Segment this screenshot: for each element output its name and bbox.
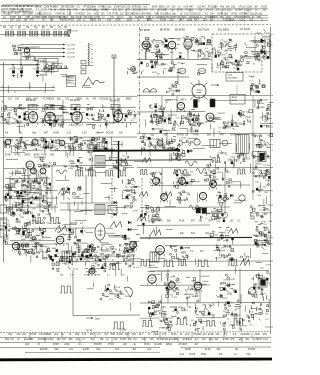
right border wire lower	[270, 96, 272, 334]
svg-text:EY86: EY86	[223, 338, 230, 341]
tube B25	[153, 178, 160, 187]
tube B24 partial	[130, 242, 137, 251]
svg-text:EY86: EY86	[8, 195, 14, 197]
wire mesh left col	[8, 64, 93, 93]
svg-text:C12: C12	[65, 99, 70, 101]
table column ticks	[30, 333, 252, 343]
svg-text:PCF80: PCF80	[233, 153, 240, 155]
wave y321 sq1	[142, 321, 153, 327]
svg-text:R47: R47	[220, 135, 225, 137]
parts list rule 2	[50, 8, 268, 10]
svg-text:150k: 150k	[187, 19, 193, 22]
table text row 4	[40, 348, 256, 351]
line output transformer	[236, 135, 251, 162]
IF labels row y100	[8, 98, 132, 101]
svg-text:PL36: PL36	[73, 268, 79, 270]
svg-text:AT1025: AT1025	[170, 122, 178, 125]
aerial input parts	[67, 29, 78, 37]
AGC bus upper	[0, 86, 55, 88]
right column parts b	[252, 141, 271, 179]
detector dashed box	[212, 34, 262, 72]
deflection coil top b	[198, 68, 206, 73]
section divider dash-dot	[139, 27, 141, 133]
svg-text:EB91: EB91	[126, 99, 132, 101]
svg-text:AT1025: AT1025	[255, 58, 263, 61]
response list bracket	[67, 76, 76, 87]
wave row2 parts	[149, 172, 164, 185]
hwire y168 right	[137, 166, 273, 168]
svg-text:390: 390	[54, 348, 59, 351]
svg-text:2k2: 2k2	[22, 333, 27, 336]
parts row centre a	[3, 138, 54, 153]
IF takeoff arrow 2	[22, 48, 76, 51]
ps parts b	[195, 300, 216, 320]
audio extra parts	[150, 307, 188, 321]
scan coils symbol	[143, 89, 157, 93]
panel socket b	[0, 218, 7, 226]
svg-text:EY86: EY86	[159, 328, 165, 330]
tuner oscillator detail	[40, 60, 55, 73]
line hold parts	[176, 191, 191, 204]
svg-text:PY81: PY81	[150, 61, 156, 63]
bus hatch box	[97, 143, 107, 150]
frame fb parts	[71, 242, 94, 261]
tube below B12	[177, 102, 184, 111]
svg-text:EF80: EF80	[257, 164, 263, 166]
svg-text:EF80: EF80	[50, 147, 56, 149]
svg-text:PY81: PY81	[193, 135, 199, 137]
svg-text:1M: 1M	[235, 348, 238, 351]
svg-text:2n2: 2n2	[180, 353, 185, 356]
svg-text:100: 100	[140, 16, 145, 19]
svg-text:470: 470	[113, 338, 118, 341]
ratio detector parts	[150, 56, 166, 69]
wave y264 sq6	[240, 260, 250, 266]
interlace parts	[86, 137, 109, 154]
IF transformer S10	[59, 29, 62, 36]
frame wave sq b	[50, 218, 60, 224]
decoupling parts	[25, 55, 40, 63]
right column parts mid	[256, 99, 273, 129]
vline x225 low	[224, 168, 226, 215]
bottom-left labels	[25, 222, 84, 225]
label B9	[175, 29, 210, 32]
centre extra parts	[64, 157, 94, 172]
svg-text:+C3 240: +C3 240	[67, 53, 76, 55]
svg-text:EF80: EF80	[185, 348, 191, 351]
svg-text:100: 100	[77, 19, 82, 22]
svg-text:ECL80: ECL80	[240, 326, 247, 328]
svg-text:125: 125	[118, 9, 123, 12]
svg-text:0.05: 0.05	[107, 99, 112, 101]
svg-text:R47: R47	[263, 333, 268, 336]
parts list header rule	[2, 4, 150, 6]
IF takeoff arrow 4	[22, 56, 76, 59]
svg-text:100: 100	[188, 338, 193, 341]
table text row 2	[5, 338, 268, 341]
hwire y166 mid	[40, 165, 132, 168]
ps labels	[170, 307, 192, 309]
waveform sine small	[56, 170, 67, 174]
parts list rule 3	[1, 14, 268, 16]
svg-text:390: 390	[216, 348, 221, 351]
IF transformer S8	[47, 29, 50, 36]
electrolytic C14	[17, 67, 24, 78]
svg-text:220k: 220k	[229, 19, 235, 22]
svg-text:180 V: 180 V	[180, 99, 187, 102]
section rule y160	[105, 159, 212, 162]
osc transformer	[210, 140, 220, 148]
svg-text:125: 125	[162, 333, 167, 336]
svg-text:DY86: DY86	[99, 111, 105, 113]
svg-text:EF80: EF80	[223, 241, 229, 243]
output arrow c	[256, 244, 266, 246]
svg-text:PL36: PL36	[29, 142, 35, 144]
svg-text:C12: C12	[67, 133, 72, 135]
svg-text:EY86: EY86	[84, 275, 90, 277]
svg-text:PY81: PY81	[186, 175, 192, 177]
vline x92 mid	[91, 155, 93, 203]
diode rail a	[251, 40, 261, 42]
boost diode b	[128, 228, 131, 232]
svg-text:EY86: EY86	[133, 211, 139, 213]
svg-text:2n2: 2n2	[194, 338, 199, 341]
labels row y135r	[142, 135, 256, 137]
svg-text:220: 220	[202, 338, 207, 341]
svg-text:ECL80: ECL80	[106, 133, 114, 135]
svg-text:PCF80: PCF80	[269, 34, 273, 36]
dark box right	[259, 278, 267, 287]
svg-text:5p6: 5p6	[62, 338, 67, 341]
svg-text:2n2: 2n2	[147, 348, 152, 351]
table rule 3	[0, 341, 271, 343]
svg-text:18p: 18p	[238, 338, 243, 341]
IF strip bus wire	[0, 34, 68, 36]
svg-text:EY86: EY86	[23, 191, 29, 193]
sq y158 right	[212, 158, 221, 163]
wave M	[137, 216, 146, 221]
svg-text:4k7: 4k7	[194, 343, 199, 346]
table rule 1	[0, 331, 271, 334]
waveform sq 1	[75, 171, 84, 177]
wave y264 sq3	[178, 260, 187, 266]
svg-text:1M: 1M	[236, 322, 239, 324]
IF transformer S3	[18, 29, 21, 36]
centre saw wave	[58, 189, 70, 195]
sync parts a	[15, 139, 28, 152]
svg-text:EY86: EY86	[160, 19, 167, 22]
feeder top connector	[112, 55, 116, 58]
diode rail b	[251, 51, 261, 53]
video drive wire	[137, 76, 189, 78]
svg-text:PL36: PL36	[77, 167, 83, 169]
service sq wave mid	[60, 286, 72, 293]
svg-text:PCF80: PCF80	[60, 19, 68, 22]
aerial wire	[0, 64, 40, 66]
service area top parts c	[109, 256, 140, 269]
svg-text:220k: 220k	[254, 333, 260, 336]
diode X1	[261, 38, 266, 43]
vline x70 low	[69, 210, 71, 240]
audio rail wire	[150, 270, 268, 272]
label B11	[218, 28, 251, 32]
service area top parts a	[52, 256, 79, 272]
wave y321 sq3	[206, 321, 216, 327]
wave y319 sq2	[176, 319, 188, 325]
waveform sq 4	[118, 171, 127, 177]
ballast parts	[210, 228, 234, 243]
circle part c	[239, 195, 245, 201]
vertical feeder wire	[113, 56, 115, 123]
svg-text:AW43: AW43	[232, 96, 238, 99]
vline x240 bottom	[239, 269, 241, 330]
svg-text:EB91: EB91	[259, 146, 265, 148]
dark component	[210, 99, 215, 107]
svg-text:B 10-4: B 10-4	[120, 329, 127, 331]
circle part b	[222, 140, 228, 146]
left edge wire	[3, 62, 5, 262]
svg-text:470: 470	[29, 19, 34, 22]
video bias parts	[167, 82, 180, 96]
ps parts dark	[223, 300, 241, 317]
svg-text:ECL80: ECL80	[173, 155, 180, 157]
hwire y245 right	[165, 244, 260, 246]
sync parts b	[43, 139, 59, 151]
sound IF tube B8	[168, 41, 176, 51]
svg-text:EF80: EF80	[210, 314, 216, 316]
hwire y256 left	[60, 255, 135, 257]
svg-text:220: 220	[169, 19, 174, 22]
service vline	[72, 270, 74, 315]
svg-text:125: 125	[141, 338, 146, 341]
sync tube B16	[59, 140, 65, 148]
svg-text:PL36: PL36	[41, 155, 47, 157]
svg-text:PL36: PL36	[115, 287, 121, 289]
svg-text:DY86: DY86	[41, 9, 48, 12]
svg-text:100: 100	[10, 19, 15, 22]
svg-text:DY86: DY86	[53, 343, 60, 346]
svg-text:PL36: PL36	[179, 221, 185, 223]
svg-text:EY86: EY86	[153, 307, 159, 309]
svg-text:220k: 220k	[46, 333, 52, 336]
parts list text row 3	[3, 12, 263, 15]
svg-text:R47: R47	[209, 221, 214, 223]
table text row 5	[180, 353, 251, 356]
hwire y318 right	[140, 317, 225, 320]
svg-text:10n: 10n	[202, 333, 207, 336]
B5 anode parts	[124, 109, 141, 127]
svg-text:PL36: PL36	[159, 116, 165, 118]
svg-text:EY86: EY86	[95, 275, 101, 277]
capacitor row y67	[43, 63, 68, 68]
IF transformer S2	[11, 29, 14, 36]
svg-text:125: 125	[150, 338, 155, 341]
wave row2 sq b	[237, 169, 246, 174]
svg-text:PL36: PL36	[144, 343, 150, 346]
svg-text:475 V: 475 V	[165, 99, 172, 102]
svg-text:4k7: 4k7	[123, 343, 128, 346]
parts list text row 1	[36, 6, 268, 9]
svg-text:DY86: DY86	[173, 90, 179, 92]
vision amp tube B9	[184, 39, 192, 53]
centre extra parts b	[60, 186, 81, 200]
AGC bus lower	[0, 91, 55, 93]
svg-text:PCF80: PCF80	[102, 251, 109, 253]
svg-text:ECL80: ECL80	[267, 244, 273, 246]
sawtooth wave b	[110, 222, 122, 228]
right half row extra	[141, 137, 169, 151]
service area top parts b	[84, 254, 107, 272]
waveform sq 3	[105, 171, 114, 177]
dark box pair	[196, 208, 207, 213]
wire mesh frame out	[15, 221, 138, 266]
svg-text:C12: C12	[82, 333, 87, 336]
dark AM label	[206, 166, 210, 170]
vline x200 bottom	[199, 269, 201, 303]
B7 coupling parts	[153, 38, 169, 58]
vert drop a	[45, 58, 47, 71]
svg-text:X1 OA70: X1 OA70	[240, 28, 251, 31]
svg-text:82p: 82p	[171, 9, 176, 12]
labels y156 left	[5, 155, 55, 157]
audio out tube B31	[148, 275, 156, 285]
svg-text:+C1 240: +C1 240	[67, 45, 76, 47]
audio parts b	[185, 277, 200, 299]
svg-text:4k7: 4k7	[144, 9, 149, 12]
right edge border wire	[270, 27, 272, 95]
label box B4	[45, 105, 54, 110]
svg-text:18p: 18p	[23, 19, 28, 22]
diode coil a	[256, 33, 262, 34]
speaker rail wire	[140, 302, 270, 304]
sync separator parts	[2, 177, 49, 200]
svg-text:EY86: EY86	[267, 45, 273, 47]
wave y190 saw a	[139, 192, 148, 197]
centre rail wire	[0, 136, 137, 138]
svg-text:EB91: EB91	[228, 285, 234, 287]
svg-text:PCF80: PCF80	[91, 252, 98, 254]
tube B26	[179, 178, 186, 187]
parts list rule 4	[1, 17, 268, 19]
svg-text:2k2: 2k2	[67, 9, 72, 12]
svg-text:R47: R47	[125, 333, 130, 336]
line drive cluster	[204, 167, 233, 187]
tube B13	[206, 113, 214, 123]
svg-text:PY81: PY81	[30, 333, 37, 336]
svg-text:R47: R47	[90, 333, 95, 336]
frame output transformer	[62, 251, 72, 261]
speaker arc	[124, 287, 132, 297]
diode coil b	[264, 33, 270, 34]
right band boost b	[186, 112, 203, 126]
svg-text:AT1025: AT1025	[40, 74, 48, 77]
svg-text:470: 470	[73, 9, 78, 12]
svg-text:82p: 82p	[91, 338, 96, 341]
mesh mid-left boost	[4, 133, 146, 215]
anode arrow	[211, 84, 219, 86]
svg-text:R47: R47	[44, 133, 49, 135]
svg-text:DY86: DY86	[230, 135, 236, 137]
svg-text:AT1025: AT1025	[243, 111, 251, 114]
audio parts a	[163, 274, 182, 299]
svg-text:72 43: 72 43	[86, 330, 92, 332]
dark label box sync	[17, 169, 25, 174]
svg-text:DY86: DY86	[266, 265, 272, 267]
aerial box top	[21, 47, 40, 65]
diode vwire b	[269, 36, 271, 56]
grommet b	[11, 212, 15, 216]
wave row2 sine b	[177, 169, 187, 174]
svg-text:AT1025: AT1025	[148, 220, 157, 223]
svg-text:Danr: Danr	[95, 318, 100, 321]
svg-text:EB91: EB91	[35, 140, 41, 142]
tube B4	[45, 112, 55, 126]
pointer label	[86, 317, 100, 321]
wire mesh right band	[146, 99, 263, 141]
vert drop b	[33, 104, 118, 110]
svg-text:ECL80: ECL80	[133, 267, 140, 269]
svg-text:2n2: 2n2	[185, 333, 190, 336]
svg-text:PCF80: PCF80	[193, 333, 201, 336]
svg-text:DY86: DY86	[189, 353, 196, 356]
svg-text:PY81: PY81	[190, 289, 196, 291]
mid vertical wire	[85, 175, 87, 215]
wave row2 sq a	[140, 170, 148, 175]
IF transformer S1	[6, 29, 9, 36]
output arrow a	[250, 235, 266, 239]
svg-text:ECL80: ECL80	[155, 343, 163, 346]
svg-text:EY86: EY86	[5, 155, 11, 157]
hwire y225 right	[137, 224, 210, 226]
svg-text:EF80: EF80	[177, 9, 183, 12]
audio parts c	[216, 274, 237, 298]
label B4 EF80	[70, 99, 80, 102]
svg-text:ECL80: ECL80	[70, 223, 78, 225]
svg-text:10n: 10n	[69, 348, 74, 351]
svg-text:ECL80: ECL80	[226, 314, 233, 316]
sawtooth y230 b	[228, 229, 238, 234]
svg-text:PCF80: PCF80	[16, 53, 23, 55]
svg-text:+C4 240: +C4 240	[67, 57, 76, 59]
detector parts	[214, 39, 232, 68]
table rule 4	[0, 346, 271, 349]
wire mesh sync area	[9, 170, 69, 221]
svg-text:AT1025: AT1025	[31, 252, 39, 255]
bottom parts between waves	[159, 318, 203, 332]
frame osc box	[108, 206, 117, 214]
svg-text:100: 100	[248, 9, 253, 12]
right band boost a	[154, 107, 167, 124]
parts list text row 5	[10, 19, 253, 22]
svg-text:31.9: 31.9	[67, 82, 71, 84]
IF takeoff arrow 1	[22, 44, 76, 47]
label B5 EF80	[110, 100, 120, 103]
svg-text:B11 EB91: B11 EB91	[218, 29, 230, 32]
svg-text:4k7: 4k7	[132, 348, 137, 351]
mains separator thick line	[140, 236, 252, 239]
ps parts a	[148, 300, 167, 317]
svg-text:DY86: DY86	[181, 137, 187, 139]
svg-text:82p: 82p	[199, 9, 204, 12]
tube B6	[114, 111, 123, 124]
svg-text:PL36: PL36	[205, 348, 211, 351]
hwire y240 left	[10, 239, 55, 241]
HT bus thin segment	[50, 150, 95, 152]
right-of-centre parts	[122, 178, 138, 212]
sound strip row2 parts	[141, 61, 200, 75]
boost diode d	[114, 213, 117, 217]
IF transformer S6	[35, 29, 38, 36]
